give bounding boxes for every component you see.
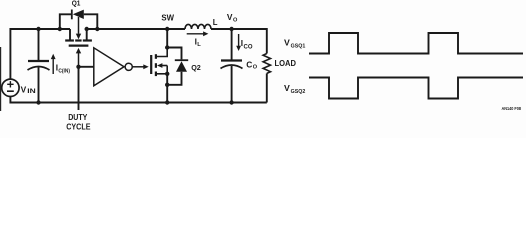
wire SW down to Q2 drain <box>166 29 168 48</box>
svg-text:GSQ1: GSQ1 <box>291 43 306 49</box>
node Q2 ground junction <box>165 100 169 104</box>
svg-text:V: V <box>284 37 290 47</box>
node D2 anode junction <box>165 83 169 87</box>
node CIN top <box>36 27 40 31</box>
svg-text:SW: SW <box>161 14 174 23</box>
svg-text:V: V <box>227 12 233 22</box>
current arrow IC(IN) <box>51 54 56 74</box>
svg-text:LOAD: LOAD <box>275 58 297 68</box>
node MOSFET drain stub <box>85 27 89 31</box>
node Q2 drain junction <box>165 45 169 49</box>
diode D1 body diode of Q1 <box>60 10 98 30</box>
current arrow IL <box>187 31 209 36</box>
transistor Q2 <box>151 48 167 77</box>
wire left page-edge rule <box>0 47 2 111</box>
node CO bottom <box>229 100 233 104</box>
waveform VGSQ2 <box>309 78 523 99</box>
svg-text:AN140 F08: AN140 F08 <box>502 106 522 111</box>
svg-text:IN: IN <box>27 88 35 95</box>
diode D2 body diode of Q2 <box>167 48 188 85</box>
svg-text:V: V <box>284 83 290 93</box>
svg-text:C: C <box>246 59 252 69</box>
resistor LOAD <box>263 54 270 103</box>
svg-text:GSQ2: GSQ2 <box>291 89 306 95</box>
wire SW rail (Q1 drain to inductor) <box>87 28 185 30</box>
voltage source VIN <box>2 79 19 96</box>
current arrow ICO <box>236 34 241 51</box>
svg-text:C(IN): C(IN) <box>58 68 70 74</box>
node D1 anode rail <box>58 27 62 31</box>
svg-text:CO: CO <box>244 44 253 50</box>
svg-text:L: L <box>197 42 201 48</box>
wire driver input <box>79 66 94 68</box>
wire bottom ground rail <box>39 101 267 103</box>
node Q1 gate / driver input junction <box>76 65 80 69</box>
wire Q2 source to ground rail <box>166 74 168 103</box>
waveform VGSQ1 <box>309 33 523 54</box>
capacitor CO <box>221 29 243 103</box>
transistor Q1 <box>65 17 92 67</box>
node D1 cathode rail <box>95 27 99 31</box>
svg-text:O: O <box>233 17 238 23</box>
wire VIN bottom lead <box>10 97 38 103</box>
op-amp U1 gate driver <box>94 48 133 86</box>
inductor L <box>185 24 211 29</box>
svg-text:V: V <box>21 84 27 94</box>
wire driver output to Q2 gate <box>132 64 148 69</box>
svg-text:Q2: Q2 <box>191 63 201 72</box>
capacitor CIN <box>28 29 50 103</box>
svg-text:O: O <box>253 65 258 71</box>
node CIN bottom <box>36 100 40 104</box>
svg-text:Q1: Q1 <box>72 1 81 8</box>
wire inductor to VO <box>211 28 232 30</box>
wire VIN to top rail (VIN net) <box>10 29 70 79</box>
svg-text:L: L <box>213 18 218 27</box>
node SW <box>165 27 169 31</box>
node VO <box>229 27 233 31</box>
svg-text:CYCLE: CYCLE <box>66 121 91 131</box>
node Q2 source junction <box>165 72 169 76</box>
wire VO rail to load <box>232 29 267 54</box>
wire DUTY CYCLE input <box>78 67 80 110</box>
